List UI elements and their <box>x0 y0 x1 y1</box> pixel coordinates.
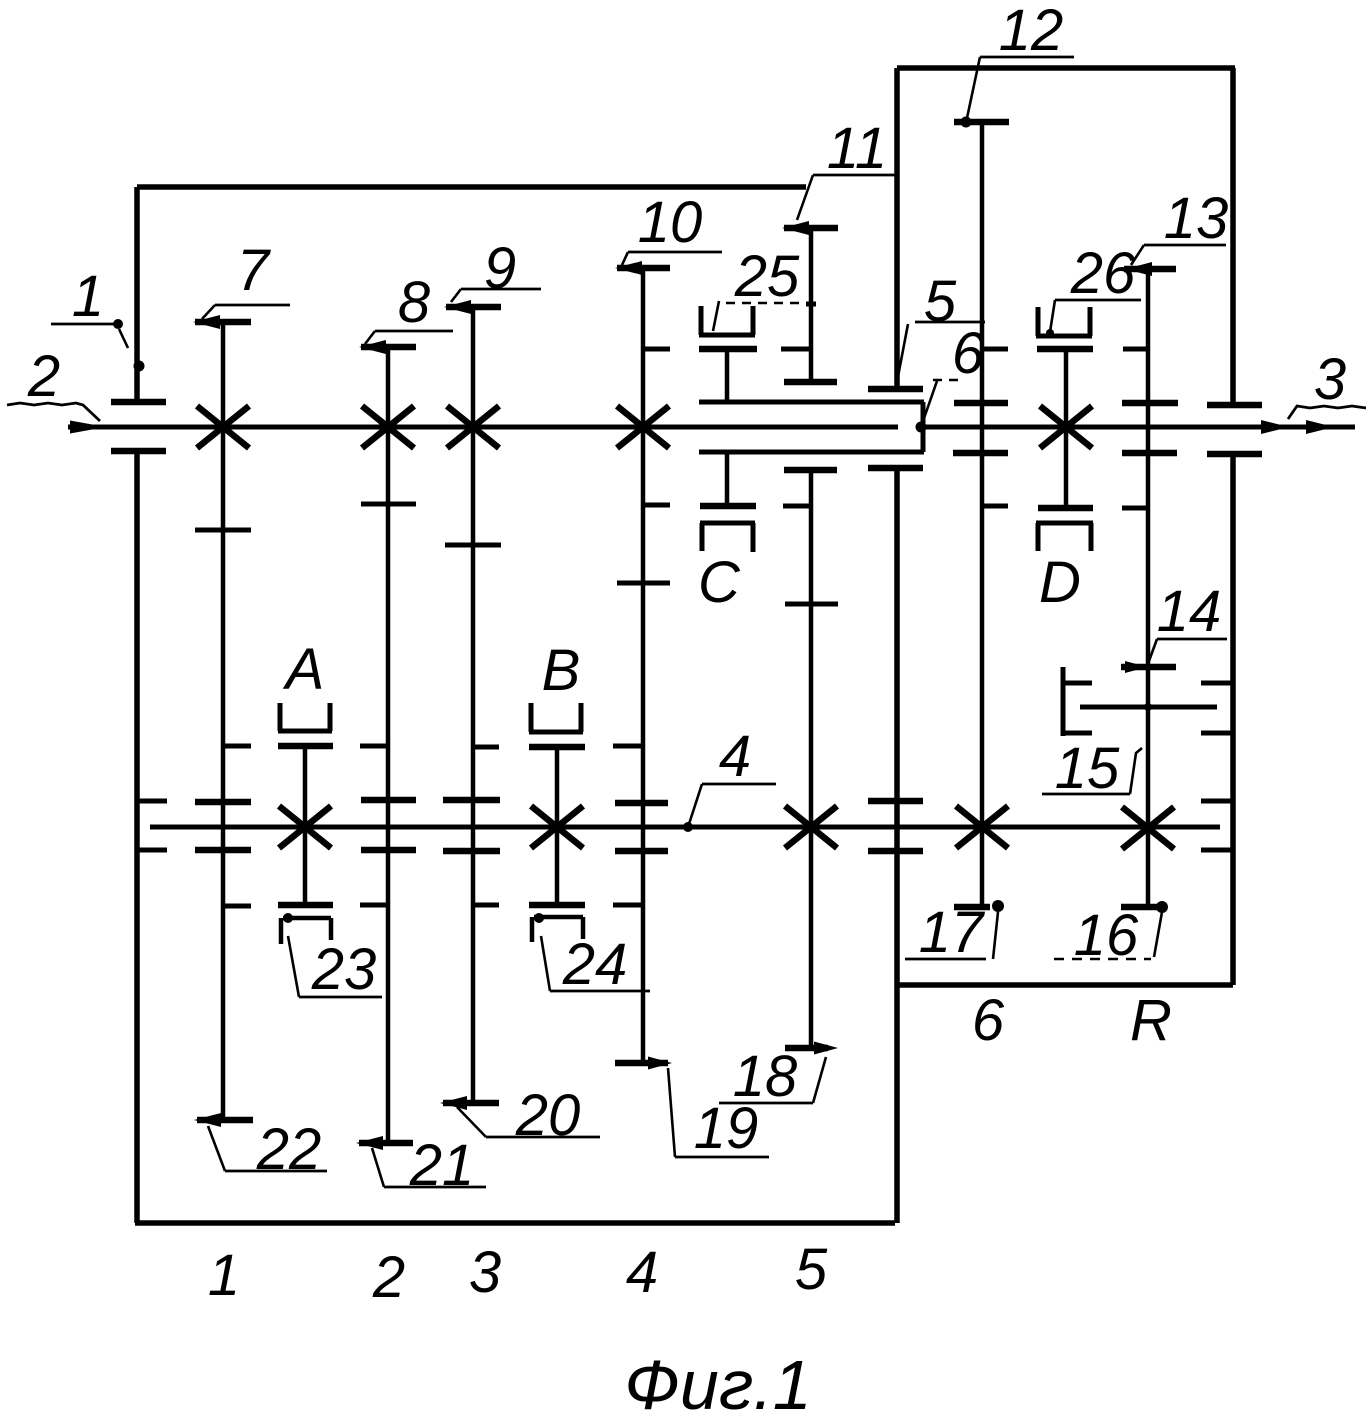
label 2 <box>7 344 100 421</box>
gear 8 fixed-joint X on main shaft <box>362 406 414 448</box>
output shaft 3 (main shaft right part) <box>921 425 1355 430</box>
label 18 <box>719 1044 826 1109</box>
gearbox housing 2 right edge <box>1230 68 1236 985</box>
gear on shared wall upper cap <box>868 386 923 393</box>
svg-text:R: R <box>1130 988 1172 1053</box>
label 15 <box>1042 736 1142 801</box>
gear 22 sleeve caps on lower shaft <box>195 802 251 850</box>
gear 19 dog tick upper <box>613 744 643 749</box>
gear 5 lower line <box>809 470 814 1048</box>
svg-text:5: 5 <box>795 1237 828 1302</box>
input wall lower-shaft bearing bars <box>137 801 167 850</box>
svg-text:9: 9 <box>484 236 516 301</box>
gear 5 mesh tick <box>785 602 838 607</box>
clutch A fixed-joint X on lower shaft <box>279 806 331 848</box>
clutch D stem <box>1064 349 1069 508</box>
one-way brake 24 bracket <box>532 913 583 942</box>
gear 7 top cap <box>193 315 251 329</box>
label 23 <box>288 936 382 1002</box>
gear 21 bottom cap <box>356 1136 413 1150</box>
gearbox housing 1 bottom edge <box>135 1220 895 1226</box>
gear 17 fixed-joint X on lower shaft <box>956 806 1008 848</box>
gearbox housing 1 left edge / input wall <box>134 187 140 1223</box>
label 1 <box>51 264 128 348</box>
label 26 <box>1046 241 1141 337</box>
gear 21 sleeve caps on lower shaft <box>361 800 416 850</box>
speed label 1 <box>208 1243 240 1308</box>
svg-text:8: 8 <box>398 270 430 335</box>
svg-text:14: 14 <box>1157 579 1222 644</box>
label B <box>542 638 581 703</box>
gear 18 bottom cap <box>785 1042 838 1055</box>
gear 13 top cap <box>1124 262 1176 276</box>
lower shaft (countershaft) <box>150 825 1220 830</box>
gear 10 mesh tick <box>617 581 670 586</box>
gear 10 column line <box>641 268 646 1063</box>
svg-text:B: B <box>542 638 581 703</box>
svg-text:4: 4 <box>719 724 751 789</box>
coupling 15 sliding sleeve <box>1063 667 1092 736</box>
gear 8 column line <box>386 347 391 1143</box>
gear 9 fixed-joint X on main shaft <box>447 406 499 448</box>
gear on shared wall lower cap <box>868 465 923 472</box>
svg-text:Фиг.1: Фиг.1 <box>624 1346 811 1417</box>
gear 13 dog tick upper <box>1123 347 1148 352</box>
output wall lower-shaft bearing bars <box>1201 801 1233 850</box>
gear 21 dog tick upper <box>360 744 389 749</box>
svg-text:2: 2 <box>27 344 60 409</box>
gear 20 bottom cap <box>440 1096 499 1110</box>
gear 13 column line <box>1146 269 1151 907</box>
label 25 <box>713 244 816 331</box>
clutch D upper cap <box>1037 346 1093 353</box>
svg-text:C: C <box>698 550 741 615</box>
gear 22 dog tick lower <box>225 904 251 909</box>
svg-text:2: 2 <box>372 1245 405 1310</box>
output shaft arrows <box>1261 420 1334 434</box>
clutch A stem <box>303 746 308 905</box>
input shaft 2 (main shaft left part) <box>68 425 898 430</box>
gear 11 top cap <box>782 221 838 235</box>
speed label R <box>1130 988 1172 1053</box>
label 9 <box>451 236 541 302</box>
svg-text:1: 1 <box>72 264 104 329</box>
gear 7 fixed-joint X on main shaft <box>197 406 249 448</box>
shared housing wall (right wall of box1 / left wall of box2) <box>894 68 900 1223</box>
svg-text:10: 10 <box>638 190 703 255</box>
svg-text:A: A <box>283 637 325 702</box>
gear 7 column line <box>221 322 226 1120</box>
gear 12 dog tick lower <box>982 504 1008 509</box>
gear 11 bottom cap above sleeve <box>784 379 837 386</box>
label 14 <box>1149 579 1227 661</box>
clutch B lower cap <box>529 902 585 909</box>
svg-text:4: 4 <box>626 1240 658 1305</box>
label 21 <box>372 1133 486 1198</box>
label 19 <box>668 1068 769 1161</box>
clutch C upper stem <box>725 349 730 402</box>
label 24 <box>541 932 650 997</box>
label 3 <box>1288 347 1366 419</box>
svg-text:12: 12 <box>999 0 1064 63</box>
label D <box>1039 550 1081 615</box>
svg-text:11: 11 <box>827 116 887 181</box>
svg-text:3: 3 <box>1314 347 1346 412</box>
label A <box>283 637 325 702</box>
clutch D fork bracket 26 <box>1036 307 1092 336</box>
svg-text:3: 3 <box>469 1240 501 1305</box>
speed label 6 <box>972 988 1005 1053</box>
node 6 (junction dot on main shaft) <box>916 422 927 433</box>
svg-text:13: 13 <box>1164 186 1229 251</box>
svg-text:D: D <box>1039 550 1081 615</box>
label 22 <box>208 1117 327 1182</box>
clutch C lower stem <box>725 452 730 506</box>
svg-text:25: 25 <box>734 244 800 309</box>
figure caption <box>624 1346 811 1417</box>
clutch A upper cap <box>278 743 333 750</box>
gear 9 mesh tick <box>445 543 501 548</box>
svg-text:7: 7 <box>237 238 272 303</box>
label 7 <box>202 238 290 319</box>
gear 12 column line <box>980 122 985 907</box>
gear 12 sleeve caps on main shaft <box>953 403 1008 453</box>
label 12 <box>967 0 1074 118</box>
clutch C lower cap <box>700 503 756 510</box>
gear 12 top cap <box>954 117 1009 128</box>
hollow shaft 5 (sleeve) <box>699 402 924 452</box>
label 16 <box>1054 903 1162 968</box>
gear 7 mesh tick <box>195 528 251 533</box>
speed label 4 <box>626 1240 658 1305</box>
gear 20 dog tick upper <box>473 745 499 750</box>
label 11 <box>797 116 896 220</box>
label 8 <box>365 270 453 344</box>
input shaft direction arrow <box>70 421 106 434</box>
gear 13 sleeve caps on main shaft <box>1122 403 1178 453</box>
gearbox housing 2 bottom edge <box>897 982 1233 988</box>
clutch A lower cap <box>278 902 333 909</box>
speed label 5 <box>795 1237 828 1302</box>
gear R top cap with arrow 14 <box>1121 661 1176 673</box>
label C <box>698 550 741 615</box>
one-way brake 23 bracket <box>281 913 331 944</box>
output wall bearing caps <box>1207 405 1262 454</box>
gear 19 dog tick lower <box>613 903 643 908</box>
clutch B upper cap <box>529 744 585 751</box>
gear 9 column line <box>471 307 476 1103</box>
node 1 (dot on input wall) <box>134 361 145 372</box>
gear 13 dog tick lower <box>1122 506 1148 511</box>
svg-text:19: 19 <box>694 1096 759 1161</box>
gear 16 bottom cap <box>1121 901 1168 913</box>
gearbox housing 2 (right box) top edge <box>897 65 1235 71</box>
svg-text:17: 17 <box>919 900 986 965</box>
clutch C fork bracket 25 <box>699 306 755 335</box>
clutch C fork bracket lower <box>700 523 755 552</box>
gear 8 mesh tick <box>361 502 416 507</box>
node 4 (dot on lower shaft) <box>683 822 693 832</box>
label 17 <box>905 900 998 965</box>
gear 14 long bar <box>1080 703 1217 711</box>
output wall coupling-15 bars <box>1201 683 1233 733</box>
gear 21 dog tick lower <box>360 903 389 908</box>
clutch B fixed-joint X on lower shaft <box>531 806 583 848</box>
gear 10 dog tick below shaft <box>643 503 670 508</box>
gear 19 sleeve caps on lower shaft <box>615 803 668 851</box>
label 10 <box>622 190 722 265</box>
clutch A fork bracket <box>278 703 332 731</box>
gear 11 upper line <box>809 228 814 382</box>
svg-text:1: 1 <box>208 1243 240 1308</box>
gearbox housing 1 (left box) top edge <box>137 184 806 190</box>
gear 20 sleeve caps on lower shaft <box>443 800 500 851</box>
gear 22 dog tick upper <box>225 744 251 749</box>
svg-text:23: 23 <box>311 937 377 1002</box>
gear 10 dog tick upper <box>643 347 670 352</box>
speed label 3 <box>469 1240 501 1305</box>
label 6 <box>922 321 985 424</box>
input wall bearing caps <box>111 402 166 451</box>
svg-text:26: 26 <box>1070 241 1136 306</box>
speed label 2 <box>372 1245 405 1310</box>
clutch C upper cap <box>699 346 757 353</box>
label 4 <box>689 724 776 824</box>
svg-text:24: 24 <box>562 932 628 997</box>
gear 20 dog tick lower <box>473 903 499 908</box>
gear 12 dog tick upper <box>982 347 1008 352</box>
svg-text:6: 6 <box>972 988 1005 1053</box>
label 20 <box>457 1083 600 1148</box>
gear 22 bottom cap <box>194 1113 253 1127</box>
gear 11 dog tick 1 <box>781 347 811 352</box>
gear 5 top cap below sleeve <box>784 467 837 474</box>
gear R fixed-joint X on lower shaft <box>1122 807 1174 849</box>
svg-text:15: 15 <box>1055 736 1120 801</box>
shared wall lower-shaft sleeve caps <box>868 801 923 851</box>
gear 17 bottom cap <box>954 900 1004 912</box>
label 13 <box>1131 186 1228 265</box>
gear 10 fixed-joint X on main shaft <box>617 406 669 448</box>
clutch B stem <box>555 747 560 905</box>
gear 18 fixed-joint X on lower shaft <box>785 806 837 848</box>
svg-text:6: 6 <box>952 321 985 386</box>
gear 19 bottom cap <box>615 1057 672 1070</box>
gear 8 top cap <box>359 340 416 354</box>
gear 9 top cap <box>444 300 501 314</box>
label 5 <box>896 269 985 387</box>
clutch D lower cap <box>1038 505 1093 512</box>
gear 10 top cap <box>615 261 670 275</box>
gear 5 dog tick <box>783 504 811 509</box>
clutch B fork bracket <box>529 703 583 732</box>
clutch D fork bracket lower <box>1036 523 1093 551</box>
clutch D fixed-joint X on main shaft <box>1040 406 1092 448</box>
